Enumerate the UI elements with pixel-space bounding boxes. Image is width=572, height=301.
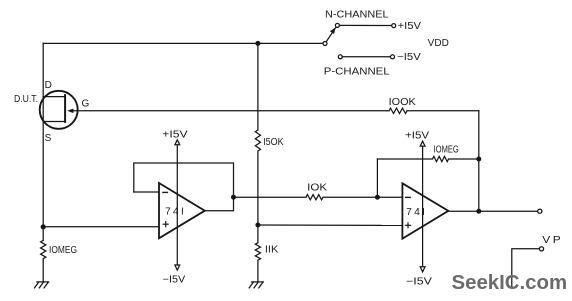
switch SW1 blade with arrow [326, 28, 336, 42]
svg-text:−I5V: −I5V [163, 274, 186, 285]
power +15V op1 arrow [175, 140, 180, 145]
ground under 10MEG [35, 282, 49, 288]
wire right vertical from 100K corner down to output [478, 111, 480, 211]
svg-text:+I5V: +I5V [162, 130, 188, 141]
resistor 100K [389, 108, 407, 113]
svg-text:+I5V: +I5V [398, 21, 422, 32]
power -15V op2 arrow [420, 267, 425, 272]
svg-text:74I: 74I [165, 207, 184, 218]
svg-text:V P: V P [542, 235, 561, 246]
node junction 10MEG / right vertical [476, 157, 481, 162]
wire op2 minus stub [377, 196, 402, 198]
node op1 output / feedback junction [231, 195, 236, 200]
svg-text:+I5V: +I5V [405, 131, 429, 142]
svg-text:VDD: VDD [428, 38, 449, 49]
wire top rail [43, 42, 323, 44]
resistor 10K [234, 195, 378, 200]
wire op1 feedback loop [134, 163, 234, 197]
svg-text:P-CHANNEL: P-CHANNEL [324, 66, 390, 77]
switch throw P-channel (-15V) [338, 55, 342, 59]
svg-text:I5OK: I5OK [263, 137, 284, 148]
node junction 11K top [255, 223, 260, 228]
node junction op2 output / right vertical [476, 209, 481, 214]
svg-text:G: G [82, 99, 90, 110]
svg-text:SeekIC.com: SeekIC.com [452, 272, 568, 294]
svg-text:D.U.T.: D.U.T. [14, 94, 38, 105]
node junction top rail / 150K rail [255, 41, 260, 46]
terminal VP lower [539, 247, 543, 251]
svg-text:N-CHANNEL: N-CHANNEL [325, 9, 389, 20]
transistor DUT (JFET) [40, 91, 78, 129]
power -15V op1 arrow [175, 265, 180, 270]
svg-text:IOOK: IOOK [389, 97, 417, 108]
power rail op2 vertical [422, 146, 424, 266]
op-amp U2 741 [402, 183, 448, 238]
wire from lower terminal [512, 249, 540, 288]
wire op2 feedback vertical [376, 159, 378, 197]
node junction left rail / op1 plus [41, 224, 46, 229]
node op2 minus junction [375, 195, 380, 200]
power +15V op2 arrow [420, 141, 425, 146]
svg-text:IOMEG: IOMEG [434, 145, 459, 156]
wire left rail [42, 43, 44, 240]
wire op1 plus input line [43, 226, 159, 228]
wire gate/100K horizontal line [73, 110, 389, 112]
switch SW1 pole [323, 42, 327, 46]
resistor 10MEG (right) [377, 156, 478, 161]
wire op2 output [448, 210, 537, 212]
switch throw N-channel (+15V) [335, 23, 339, 27]
svg-text:D: D [45, 80, 52, 91]
svg-text:IIK: IIK [265, 245, 279, 256]
op-amp U1 741 [159, 183, 205, 238]
wire op1 minus input stub [134, 191, 159, 193]
ground under 11K [249, 282, 263, 288]
svg-text:−I5V: −I5V [397, 52, 421, 63]
resistor 11K [255, 225, 260, 282]
resistor 150K [255, 43, 260, 225]
power rail op1 vertical [176, 145, 178, 265]
resistor 10MEG (left) [41, 240, 46, 282]
svg-text:IOK: IOK [307, 183, 327, 194]
terminal VP upper [538, 209, 542, 213]
wire op2 plus input line [258, 224, 403, 226]
svg-text:−I5V: −I5V [406, 277, 432, 288]
wire op1 output [205, 197, 234, 211]
svg-text:S: S [45, 133, 52, 144]
svg-text:IOMEG: IOMEG [49, 245, 77, 256]
